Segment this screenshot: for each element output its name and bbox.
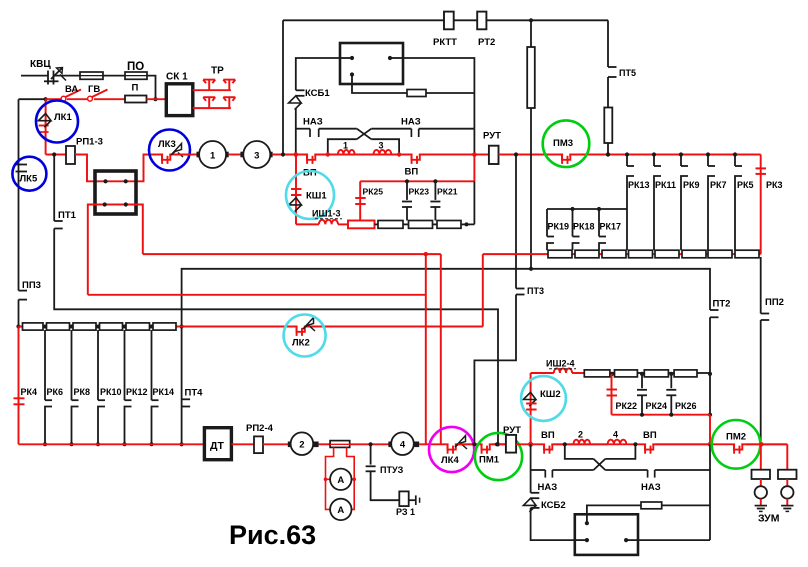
svg-text:СК 1: СК 1 [166, 72, 188, 83]
wire resistor to x710 vert [662, 504, 710, 506]
node x474 bottom [472, 442, 476, 446]
svg-text:ВП: ВП [643, 430, 657, 441]
wire fuse to ПО [103, 75, 125, 77]
wire lamp stub right [786, 479, 788, 486]
wire left column upper [18, 99, 20, 290]
label ПТ3 [527, 286, 544, 296]
label НАЗ upper-left [303, 117, 323, 128]
label РК21 [437, 187, 458, 197]
wire box1 left to КСБ1 [296, 58, 340, 90]
contactor РК4 contact [14, 398, 25, 404]
svg-text:ПП2: ПП2 [765, 297, 784, 308]
label КШ2 [540, 389, 561, 400]
node РК22 row end [708, 413, 712, 417]
switch ПП2 break [761, 314, 770, 321]
svg-text:Рис.63: Рис.63 [229, 520, 316, 550]
relay РЗ 1 [399, 491, 408, 506]
label КШ1 [306, 191, 327, 202]
svg-text:ВП: ВП [541, 430, 555, 441]
node at СК1 input [153, 97, 157, 101]
wire ПТ1 upper [53, 155, 55, 222]
svg-text:РК17: РК17 [600, 222, 622, 232]
wire КСБ1 to bus [295, 109, 297, 155]
contactor ВП lower-right contact [645, 443, 653, 454]
wire x531 lower [530, 108, 532, 269]
wire motor1 to motor3 [229, 154, 243, 156]
wire СК1 upper output [193, 89, 231, 91]
wire resistor row right [483, 253, 761, 255]
switch ПТ3 break [516, 289, 525, 295]
label ПТ4 [185, 388, 204, 399]
svg-text:ЛК1: ЛК1 [54, 112, 72, 123]
contactor ПМ2 contact [734, 443, 742, 454]
cam РК14 [150, 330, 159, 446]
node ВА line [44, 97, 48, 101]
contactor ПМ1 contact [482, 443, 490, 454]
resistors starting bank left [23, 323, 177, 330]
node РК18 header [570, 207, 574, 211]
svg-text:ВА: ВА [65, 84, 78, 95]
svg-text:КШ1: КШ1 [306, 191, 327, 202]
wire resistor to x474 [426, 92, 474, 94]
ground right [781, 506, 793, 512]
svg-text:РК19: РК19 [548, 222, 570, 232]
wire lower НАЗ rail left [531, 469, 546, 471]
inductor ИШ1-3 [319, 220, 338, 225]
label ГВ [88, 84, 100, 95]
svg-text:РК26: РК26 [675, 401, 697, 411]
label ВП lower-left [541, 430, 555, 441]
label РП2-4 [246, 423, 274, 434]
wire x531 upper [530, 20, 532, 47]
label РК19 [548, 222, 570, 232]
arrow ЛК1 [38, 114, 51, 128]
relay РУТ lower [506, 435, 516, 453]
relay РП1-3 [66, 146, 75, 164]
lamp ЗУМ right [781, 486, 793, 498]
node РК23 tap [405, 179, 409, 183]
label ЛК4 [441, 455, 459, 466]
wire x474 black segment [473, 181, 475, 224]
wire СК1 lower output [193, 107, 231, 109]
wire lamp stub left [760, 479, 762, 486]
label ВА [65, 84, 78, 95]
arrester КСБ2 [523, 493, 539, 512]
wire КВЦ to fuse ГВ [54, 75, 81, 77]
svg-text:2: 2 [299, 440, 304, 451]
svg-text:ПТ2: ПТ2 [713, 299, 731, 310]
label РК23 [409, 187, 430, 197]
svg-text:ПМ2: ПМ2 [726, 432, 746, 443]
label ЛК2 [292, 338, 310, 349]
node coil2 left [563, 442, 567, 446]
label ПТУ3 [380, 465, 404, 475]
svg-text:ПМ1: ПМ1 [479, 455, 500, 466]
node box2 pin b [585, 538, 589, 542]
wire КСБ2 upper [530, 444, 532, 493]
node top line [529, 18, 533, 22]
wire rail cross to bars [605, 469, 647, 471]
svg-text:НАЗ: НАЗ [401, 117, 421, 128]
node box lower b [124, 202, 128, 206]
node box2 pin c [624, 538, 638, 542]
svg-text:ТР: ТР [211, 66, 224, 77]
label ПМ3 [553, 138, 573, 149]
svg-text:РК24: РК24 [646, 401, 668, 411]
svg-text:ПТ5: ПТ5 [619, 68, 636, 78]
nodes РК bank [625, 152, 737, 156]
contactor РК25 contact [355, 198, 366, 204]
svg-text:РК14: РК14 [153, 387, 175, 397]
wire КШ2 riser [530, 373, 532, 444]
inductor coil 2 [574, 440, 591, 445]
switch ПТ5 break [608, 67, 617, 77]
contactor ЛК1 contact [39, 122, 49, 137]
label ЛК5 [20, 174, 38, 185]
node ПТ1 top [52, 152, 56, 156]
wire КШ1 riser [295, 155, 297, 225]
node x474 bus [472, 152, 477, 157]
wire РУТ to ПМ3 area [499, 154, 761, 156]
svg-text:А: А [337, 505, 344, 516]
svg-text:РУТ: РУТ [483, 131, 501, 142]
svg-text:ЛК2: ЛК2 [292, 338, 310, 349]
resistor lower tap [641, 502, 662, 509]
label ПТ2 [713, 299, 731, 310]
node РК21 tap [433, 179, 437, 183]
cam РК12 [123, 330, 132, 446]
switch ПТ4 break [182, 399, 191, 406]
wire РК3 riser [760, 155, 762, 255]
node ПТ1 wire to bottom bus [496, 442, 500, 446]
label НАЗ lower-left [538, 482, 558, 493]
wire П fuse to СК1 [147, 98, 167, 100]
svg-text:4: 4 [400, 440, 406, 451]
resistors ИШ2-4 row [584, 370, 710, 377]
wire ВП to ПМ2 [656, 443, 710, 445]
node x531 on black line [529, 267, 533, 271]
cam РК9 [681, 155, 688, 251]
wire top line from РКТТ row [283, 19, 444, 21]
svg-text:ПТ1: ПТ1 [58, 210, 77, 221]
resistor upper tap [407, 90, 426, 97]
group box upper (thick) [340, 43, 403, 84]
wire x710 lower vertical [709, 444, 711, 540]
node РК24 tap [640, 372, 644, 376]
wire long black horizontal [182, 269, 710, 445]
plug НАЗ right [411, 129, 418, 137]
label КСБ1 [305, 88, 330, 99]
wire rail to cross [319, 128, 357, 130]
wire ground stub right [786, 499, 788, 506]
svg-text:РК8: РК8 [74, 387, 91, 397]
wire НАЗ rail left [296, 128, 310, 130]
wire ПП2 upper [760, 257, 762, 314]
circle ПМ2 [712, 420, 761, 469]
svg-text:ПТУЗ: ПТУЗ [380, 465, 404, 475]
contactor ВП right contact [412, 153, 420, 164]
label ПТ5 [619, 68, 636, 78]
label ПМ2 [726, 432, 746, 443]
wire РК25 branch [359, 181, 361, 220]
cam РК8 [70, 330, 79, 446]
switch ПТ1 break [54, 221, 63, 229]
label ПП2 [765, 297, 784, 308]
svg-text:ЗУМ: ЗУМ [758, 513, 780, 525]
svg-text:ДТ: ДТ [210, 440, 224, 452]
label РП1-3 [76, 137, 103, 148]
wire РТ2 to ПТ5 corner [486, 19, 608, 21]
label РК12 [126, 387, 148, 397]
cam РК11 [654, 155, 661, 251]
label РК25 [363, 187, 384, 197]
svg-text:РК10: РК10 [100, 387, 122, 397]
wire box2 inner left [575, 539, 587, 541]
node coil4 right [633, 442, 637, 446]
wire ПТ2 lower [709, 317, 711, 414]
svg-text:КСБ1: КСБ1 [305, 88, 330, 99]
wire left stub y99 [19, 98, 46, 100]
wire ПО to corner [147, 76, 156, 100]
wire lower inner rail [565, 444, 636, 459]
node bus ПТ5 [606, 152, 610, 156]
svg-text:КСБ2: КСБ2 [541, 500, 566, 511]
label ЛК1 [54, 112, 72, 123]
wire inner rail left [328, 139, 357, 154]
svg-text:РП1-3: РП1-3 [76, 137, 103, 148]
node ПТ4 resistor row [180, 324, 184, 328]
wire ДТ to РП2-4 [232, 443, 255, 445]
circle КШ2 [521, 376, 566, 421]
contactor КШ2 contact [526, 404, 537, 410]
wire coil to resistors [572, 372, 584, 374]
svg-text:1: 1 [210, 151, 216, 162]
label 3 [379, 141, 384, 151]
motor 4 [388, 432, 419, 455]
cam РК6 [43, 330, 52, 446]
pantograph ТР c [203, 97, 215, 108]
cam РК7 [708, 155, 715, 251]
arrow ЛК2 [303, 318, 315, 332]
wire x474 red segment [473, 155, 475, 182]
cam РК19 [547, 209, 554, 250]
label ВП lower-right [643, 430, 657, 441]
wire red row left segment [143, 253, 441, 255]
node ЗУМ left [759, 442, 763, 446]
switch РК24 [637, 374, 647, 417]
svg-text:3: 3 [379, 141, 384, 151]
node РК17 header [597, 207, 601, 211]
wire РК22 row [612, 414, 711, 416]
contactor ЛК3 contact [162, 153, 170, 164]
wire x474 rail to bus [473, 129, 475, 155]
fuse ПО [125, 72, 147, 79]
wire КШ1 to coil [296, 223, 319, 225]
wire feeder stub to КВЦ [21, 75, 48, 77]
svg-text:РТ2: РТ2 [478, 37, 495, 48]
label РКТТ [433, 37, 457, 48]
wire coils to ВП right [608, 443, 787, 445]
label РК10 [100, 387, 122, 397]
svg-text:РЗ 1: РЗ 1 [396, 507, 415, 517]
contactor ЛК2 contact [297, 325, 305, 336]
label РК22 [616, 401, 638, 411]
circle КШ1 [286, 171, 334, 219]
ground left [755, 506, 767, 512]
svg-text:ЛК3: ЛК3 [158, 139, 176, 150]
wire box1 bottom tap [352, 75, 407, 94]
wire РЗ1 tail [409, 495, 420, 505]
svg-text:ВП: ВП [405, 167, 419, 178]
wire ПТ5 upper [607, 20, 609, 67]
motor 1 [197, 141, 229, 168]
svg-text:ЛК4: ЛК4 [441, 455, 459, 466]
circle ЛК3 [149, 130, 190, 171]
contactor КШ1 contact [291, 189, 302, 195]
label ТР [211, 66, 224, 77]
motor 2 [288, 432, 319, 455]
svg-text:РК13: РК13 [628, 180, 650, 190]
label СК 1 [166, 72, 188, 83]
svg-text:КВЦ: КВЦ [30, 59, 51, 70]
label ПТ1 [58, 210, 77, 221]
wire motor2 to shunt [319, 443, 331, 445]
label РК14 [153, 387, 175, 397]
wire rail to x474 [419, 128, 475, 130]
pantograph ТР a [203, 80, 215, 91]
wire ПМ2 to corner [746, 444, 787, 469]
svg-text:РК9: РК9 [683, 180, 700, 190]
node РК26 tap [669, 372, 673, 376]
nodes left bank taps [43, 325, 154, 329]
label РУТ upper [483, 131, 501, 142]
relay РУТ upper [489, 146, 499, 164]
node КШ2 junction [528, 442, 533, 447]
wire ПП2 lower [760, 320, 762, 444]
wire motor4 to ЛК4 [419, 443, 506, 445]
wire box1 right [403, 58, 474, 129]
wire red riser x425.8 [425, 254, 427, 444]
wire ЛК4 to ПМ1 [458, 443, 481, 445]
label РК8 [74, 387, 91, 397]
resistor ИШ1-3 red [348, 221, 375, 229]
wire РП1-3 down into controller box [75, 155, 199, 182]
label ИШ1-3 [312, 209, 342, 219]
wire inner rail right [371, 139, 399, 154]
lamp ЗУМ left [755, 486, 767, 498]
label РК3 [766, 180, 783, 190]
contactor ЛК4 contact [448, 443, 456, 454]
wire rail bars to cross [552, 469, 593, 471]
label РК24 [646, 401, 668, 411]
node box1 pin b [388, 56, 392, 60]
node coil1 left [326, 152, 330, 156]
wire red y294.8 horizontal [88, 294, 426, 296]
svg-text:1: 1 [343, 141, 348, 151]
wire box2 tap up [587, 505, 641, 523]
label 4 [613, 430, 618, 440]
label ЗУМ [758, 513, 780, 525]
svg-text:НАЗ: НАЗ [641, 482, 661, 493]
contactor ПМ3 contact [562, 153, 570, 164]
wire left column lower [18, 300, 20, 327]
label ПО [127, 61, 144, 73]
contactor РК22 contact [607, 390, 618, 396]
svg-text:ПТ4: ПТ4 [185, 388, 204, 399]
svg-text:РК11: РК11 [655, 180, 676, 190]
wire box lower row [88, 205, 143, 295]
relay РП2-4 [254, 436, 263, 453]
wire ПТУ3 to РЗ1 [371, 471, 400, 500]
wire ПТ1 lower to long horizontal [54, 229, 498, 445]
inductor coil 3 [374, 150, 392, 155]
wire x516 upper [515, 155, 517, 289]
box СК1 [166, 84, 193, 116]
label НАЗ upper-right [401, 117, 421, 128]
svg-text:ПТ3: ПТ3 [527, 286, 544, 296]
svg-text:РП2-4: РП2-4 [246, 423, 274, 434]
switch КВЦ [44, 68, 66, 85]
ammeter A lower [330, 499, 351, 520]
circle ЛК1 [36, 101, 78, 143]
wire ПМ1 to РУТ [492, 443, 506, 445]
svg-text:ВП: ВП [303, 168, 317, 179]
node bus x516 [514, 152, 518, 156]
label НАЗ lower-right [641, 482, 661, 493]
svg-text:РК12: РК12 [126, 387, 148, 397]
wire РК4 riser [18, 327, 20, 445]
label РК7 [710, 180, 727, 190]
label ПП3 [22, 280, 41, 291]
reverser cross lower [594, 459, 606, 470]
label РТ2 [478, 37, 495, 48]
switch ГВ [67, 90, 108, 102]
cam РК13 [627, 155, 634, 251]
node x498 bottom [495, 442, 499, 446]
wire ЗУМ left drop [760, 444, 762, 469]
wire РК19 header [547, 208, 627, 210]
label РК18 [573, 222, 595, 232]
switch ВА [46, 90, 81, 102]
caption Рис.63 [229, 520, 316, 550]
resistor ЗУМ right [778, 470, 797, 479]
contactor ВП left contact [307, 153, 315, 164]
node x283 on bus [281, 152, 285, 156]
node КСБ1 bus junction [294, 152, 299, 157]
wire ИШ2-4 row [531, 372, 554, 374]
svg-text:КШ2: КШ2 [540, 389, 561, 400]
wire x516 lower to x474 [474, 295, 516, 445]
wire bus coils span [318, 154, 408, 156]
wire rail to x710 [655, 469, 710, 471]
resistor ЗУМ left [752, 470, 771, 479]
node ПТУ3 tap [369, 442, 373, 446]
inductor coil 1 [338, 150, 355, 155]
transducer ДТ box [204, 428, 231, 460]
ammeter A upper [330, 469, 351, 490]
svg-text:РК7: РК7 [710, 180, 727, 190]
label ЛК3 [158, 139, 176, 150]
cam РК17 [599, 209, 606, 250]
wire red ЛК2 line [19, 326, 483, 328]
svg-text:А: А [337, 475, 344, 486]
label КСБ2 [541, 500, 566, 511]
node x425.8 on red row [424, 252, 428, 256]
node ПТ4 bottom [180, 442, 184, 446]
wire left vertical x283 [282, 20, 284, 154]
wire resistor to bus [607, 143, 609, 155]
circle ЛК2 [284, 315, 326, 357]
